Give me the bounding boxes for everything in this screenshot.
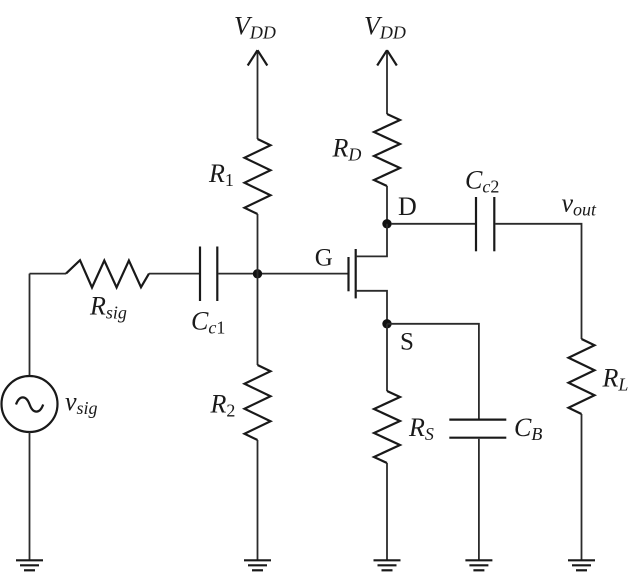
power arrow V_DD (drain) [377, 50, 397, 114]
gate bar [347, 257, 349, 291]
ground (under R2) [244, 560, 271, 570]
ground (under RL) [568, 560, 595, 570]
wire: RL to ground [581, 414, 583, 560]
capacitor C_c1 [200, 247, 217, 302]
node S (source) [382, 319, 391, 328]
node D (drain) [382, 219, 391, 228]
channel bar [355, 249, 357, 298]
wire: from source bottom to ground [29, 432, 31, 560]
ground (under CB) [465, 560, 492, 570]
wire: R_sig to C_c1 [149, 273, 199, 275]
capacitor CB [449, 420, 506, 438]
svg-text:S: S [400, 329, 414, 356]
wire: C_c1 to gate (through node) [218, 273, 348, 275]
wire: S node right to CB branch [387, 324, 479, 419]
resistor RS [374, 391, 400, 463]
resistor R2 [245, 365, 271, 440]
resistor R_sig [66, 260, 149, 287]
power arrow V_DD (left) [248, 50, 268, 139]
resistor RL [569, 339, 595, 414]
ground (under RS) [374, 560, 401, 570]
drain tap wire [356, 224, 387, 257]
source v_sig (AC source circle with sine) [2, 376, 58, 432]
capacitor C_c2 [476, 197, 494, 251]
wire: R2 to ground [257, 440, 259, 560]
resistor RD [374, 114, 400, 186]
wire: RS to ground [386, 463, 388, 560]
node: gate bias junction [253, 269, 262, 278]
wire: left rail from input corner down to source top [29, 274, 31, 376]
wire: CB to ground [478, 439, 480, 560]
wire: C_c2 to output corner and down to RL [495, 224, 581, 339]
ground (left, under v_sig) [16, 560, 43, 570]
wire: input horizontal to R_sig [30, 273, 67, 275]
wire: drain node to C_c2 [391, 223, 475, 225]
svg-text:D: D [398, 192, 417, 221]
source tap wire [356, 291, 387, 324]
resistor R1 [245, 139, 271, 214]
svg-text:G: G [315, 245, 333, 272]
wire: R1 bottom through node to R2 top [257, 214, 259, 365]
wire: RD bottom to drain node [386, 186, 388, 224]
transistor M1 (NMOS) [349, 224, 388, 324]
wire: S down to RS [386, 324, 388, 391]
